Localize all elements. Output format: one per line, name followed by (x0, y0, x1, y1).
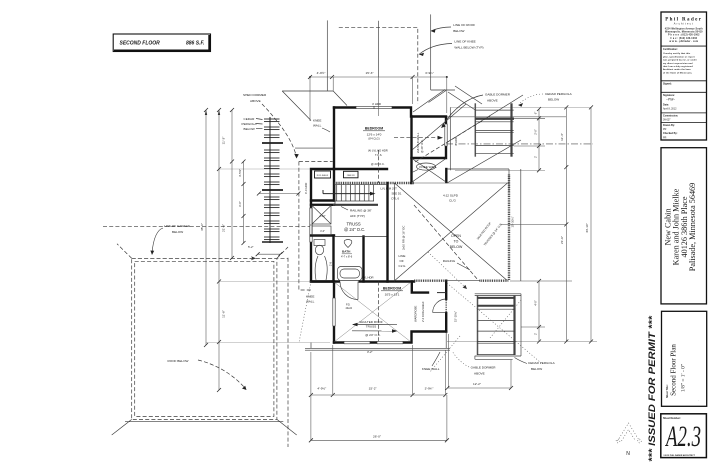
knee wall label bottom (422, 352, 440, 371)
svg-text:Architect: Architect (674, 21, 694, 25)
leader: gable dormer above top right (441, 93, 511, 129)
svg-text:PR: PR (663, 136, 667, 139)
svg-text:April 8, 2012: April 8, 2012 (663, 108, 677, 111)
garage roof outline dashed (112, 244, 297, 435)
svg-text:Architect under the laws: Architect under the laws (663, 68, 691, 71)
svg-text:P h o n e : (612) 430-1002: P h o n e : (612) 430-1002 (668, 34, 700, 37)
svg-text:TO: TO (454, 240, 459, 244)
closet rail hatch (445, 300, 447, 312)
svg-text:KNEE: KNEE (313, 119, 321, 123)
svg-text:5'-2": 5'-2" (248, 245, 254, 249)
svg-text:(4) LVL HD HDR: (4) LVL HD HDR (368, 149, 388, 153)
svg-text:4'-9½": 4'-9½" (317, 71, 326, 75)
svg-text:Second Floor Plan: Second Floor Plan (670, 344, 678, 396)
knee wall segment right (445, 169, 447, 182)
leader: shed dormer above (243, 93, 299, 159)
svg-text:OF: OF (400, 259, 404, 263)
svg-text:T.O.S.: T.O.S. (375, 153, 382, 157)
svg-text:RAILING @ 36": RAILING @ 36" (350, 209, 372, 213)
svg-text:w w w . philrader . com: w w w . philrader . com (669, 41, 698, 43)
rule (661, 45, 707, 47)
slope ceiling note (443, 194, 459, 203)
right dimension column A (534, 107, 542, 344)
header notes upper room (368, 149, 388, 167)
railing note at stair (341, 207, 372, 219)
svg-text:SHED DORMER: SHED DORMER (243, 93, 267, 97)
svg-text:15'-10¾": 15'-10¾" (454, 311, 458, 322)
window in top wall (356, 106, 392, 109)
svg-text:LVL HDR: LVL HDR (362, 275, 374, 279)
svg-text:was prepared by me, or under: was prepared by me, or under (663, 60, 697, 62)
dotted roof lines bottom right (299, 282, 540, 373)
knee wall label mid right (412, 163, 437, 173)
knee wall label lower left (306, 295, 315, 304)
svg-text:BEDROOM: BEDROOM (383, 287, 401, 291)
roof plane diagonals upper right (394, 90, 523, 184)
svg-text:OPEN: OPEN (451, 234, 461, 238)
railing hatch top (334, 182, 414, 184)
second floor label box (113, 34, 210, 52)
bath divider wall (332, 236, 334, 282)
svg-text:BELOW: BELOW (172, 230, 183, 234)
bottom dimension row (309, 345, 447, 440)
svg-text:11'-6": 11'-6" (222, 310, 226, 318)
svg-text:©2012 PHIL RADER ARCHITECT: ©2012 PHIL RADER ARCHITECT (663, 454, 696, 457)
svg-text:BELOW: BELOW (453, 29, 464, 33)
svg-text:Commission:: Commission: (663, 114, 678, 117)
bedroom ceiling diagonals (334, 282, 411, 342)
bedroom label upper (363, 127, 385, 141)
lvl rim jst note (381, 187, 402, 201)
shed dormer face above (282, 20, 378, 342)
top dimension line (308, 71, 448, 121)
svg-text:@ 24" O.C.: @ 24" O.C. (420, 139, 424, 153)
roof below line upper right (431, 14, 482, 110)
closet label box (315, 171, 331, 178)
svg-text:15'-2": 15'-2" (369, 386, 377, 390)
svg-text:4' HDR: 4' HDR (372, 102, 381, 106)
open to below text (450, 234, 463, 249)
svg-text:Checked By:: Checked By: (663, 132, 678, 135)
svg-text:*** ISSUED FOR PERMIT ***: *** ISSUED FOR PERMIT *** (647, 314, 658, 462)
svg-text:4:12 SLPD: 4:12 SLPD (443, 194, 459, 198)
small left dims for pergola (238, 160, 300, 257)
svg-text:26'-0": 26'-0" (373, 435, 381, 439)
bath fixtures: toilet (344, 240, 352, 248)
svg-text:3'-9¼": 3'-9¼" (425, 386, 434, 390)
svg-text:BEDROOM: BEDROOM (365, 127, 383, 131)
left cedar pergola ladder (262, 117, 283, 243)
svg-text:3'-2": 3'-2" (367, 350, 373, 354)
railing label (443, 259, 470, 270)
sheet title box (662, 311, 707, 406)
open to below boundary (414, 169, 509, 192)
svg-text:2'-8: 2'-8 (330, 261, 333, 266)
svg-text:Certification:: Certification: (663, 48, 678, 51)
bedroom north wall (311, 280, 414, 282)
svg-text:N: N (626, 451, 630, 457)
line of ceiling note (399, 254, 407, 268)
svg-text:6'-0": 6'-0" (238, 201, 242, 207)
svg-text:@ 24" O.C.: @ 24" O.C. (344, 227, 365, 232)
svg-text:CL'G: CL'G (399, 264, 407, 268)
architect address lines (665, 27, 703, 43)
railing hatch right of open area (508, 175, 510, 281)
right dimension column B (560, 105, 568, 343)
svg-text:CEDAR PERGOLA: CEDAR PERGOLA (545, 92, 573, 96)
svg-text:(8'4 CLG): (8'4 CLG) (368, 137, 379, 141)
door opening in bedroom wall (340, 280, 359, 283)
svg-text:CL'G: CL'G (449, 199, 457, 203)
closet bottom wall (311, 199, 334, 201)
project info box (661, 148, 707, 304)
svg-text:6": 6" (534, 112, 538, 115)
svg-text:4' HDR: 4' HDR (454, 137, 458, 146)
dashed knee wall line left (299, 162, 333, 291)
exterior wall left upper (311, 108, 334, 343)
svg-text:LINE OF KNEE: LINE OF KNEE (454, 40, 475, 44)
hall-stair wall upper (334, 168, 387, 170)
closet east wall (445, 313, 447, 332)
bath inner wall (311, 234, 334, 236)
svg-text:RAILING: RAILING (443, 259, 456, 263)
leader: cedar pergola below bottom (515, 358, 556, 372)
svg-text:4'-9½": 4'-9½" (317, 386, 326, 390)
svg-text:886 S.F.: 886 S.F. (186, 40, 204, 46)
architect title block box (661, 12, 707, 140)
svg-text:10'5 x 13'1: 10'5 x 13'1 (385, 292, 400, 296)
svg-text:Palisade, Minnesota 56469: Palisade, Minnesota 56469 (688, 183, 697, 271)
dashed long roofline left (103, 225, 310, 227)
svg-text:I hereby certify that this: I hereby certify that this (663, 52, 691, 55)
svg-text:4'-0": 4'-0" (320, 230, 325, 233)
leader: line of knee wall below (419, 40, 484, 57)
svg-text:Date:: Date: (663, 104, 669, 107)
svg-text:21'-6": 21'-6" (222, 224, 226, 232)
leader: line of garage below (150, 224, 190, 255)
svg-text:40x24: 40x24 (346, 307, 353, 310)
svg-text:21'-6": 21'-6" (560, 236, 564, 244)
leader: roof below (168, 359, 247, 390)
svg-text:45'-0": 45'-0" (200, 223, 204, 231)
svg-text:TRUSS: TRUSS (347, 222, 361, 227)
svg-text:12'6 x 14'0: 12'6 x 14'0 (367, 132, 382, 136)
svg-text:2'-6": 2'-6" (534, 129, 538, 135)
central wall right of stair (386, 183, 388, 282)
svg-text:WALL: WALL (313, 124, 322, 128)
svg-text:VAULTED ROOF: VAULTED ROOF (359, 320, 383, 324)
svg-text:15'-10¾": 15'-10¾" (511, 216, 515, 227)
svg-text:LINE: LINE (399, 254, 406, 258)
window in lower left wall (332, 298, 336, 326)
svg-text:plan, specification or report: plan, specification or report (663, 55, 695, 58)
svg-text:KNEE: KNEE (306, 295, 314, 299)
svg-text:CEDAR PERGOLA: CEDAR PERGOLA (528, 361, 556, 365)
svg-text:34'-10": 34'-10" (585, 223, 589, 233)
bath door arc (340, 282, 358, 311)
svg-text:LINE OF GARAGE: LINE OF GARAGE (164, 224, 190, 228)
stair railing (333, 204, 378, 206)
closet top wall (412, 282, 428, 293)
svg-text:GABLE DORMER: GABLE DORMER (471, 366, 497, 370)
right dimension column C overall (585, 105, 593, 343)
closet interior jamb (437, 292, 446, 294)
svg-text:@ 24" O.C.: @ 24" O.C. (365, 333, 381, 337)
left dimension lines (200, 108, 330, 392)
svg-text:ABOVE: ABOVE (474, 372, 485, 376)
svg-text:LINE OF ROOF: LINE OF ROOF (453, 23, 475, 27)
bottom right dimension 12'-2" (445, 334, 513, 390)
truss note center (344, 222, 365, 232)
bottom overall dimension 26'-0" (309, 435, 449, 443)
svg-text:6'-0 HDR: 6'-0 HDR (304, 183, 308, 194)
garage top edge dashed with arrow (132, 256, 288, 260)
svg-text:CEDAR: CEDAR (244, 117, 256, 121)
bath label (341, 250, 353, 259)
svg-text:WALL BELOW (TYP): WALL BELOW (TYP) (454, 46, 483, 50)
svg-text:SECOND FLOOR: SECOND FLOOR (120, 40, 161, 46)
leader: line of roof below (431, 23, 476, 33)
window in left wall (309, 208, 313, 242)
svg-text:that I am a duly registered: that I am a duly registered (663, 65, 693, 68)
svg-text:4'-7 x 8'-6: 4'-7 x 8'-6 (341, 255, 353, 259)
stairs (323, 185, 388, 205)
svg-text:AFF (TYP): AFF (TYP) (350, 214, 365, 218)
svg-text:BELOW: BELOW (450, 245, 463, 249)
dashed roofline right of garage (287, 258, 289, 447)
diagonal vaulted truss note (476, 221, 504, 247)
svg-text:2x10 RR @ 16" OC: 2x10 RR @ 16" OC (402, 226, 406, 250)
svg-text:PERGOLA: PERGOLA (242, 122, 258, 126)
windows in bottom wall (344, 341, 370, 345)
svg-text:11'-4": 11'-4" (560, 133, 564, 141)
bedroom label lower (381, 287, 403, 297)
north arrow (616, 423, 642, 457)
svg-text:my direct supervision and: my direct supervision and (663, 62, 693, 65)
closet right wall (333, 169, 335, 201)
svg-text:Drawn By:: Drawn By: (663, 124, 675, 127)
svg-text:ABOVE: ABOVE (487, 99, 498, 103)
svg-text:4'-5⅜": 4'-5⅜" (238, 169, 242, 177)
svg-text:2'-0 ROD+SHELF: 2'-0 ROD+SHELF (421, 301, 425, 322)
svg-text:@ 24" O.C.: @ 24" O.C. (371, 162, 385, 166)
svg-text:BELOW: BELOW (244, 127, 255, 131)
rule (661, 91, 707, 93)
lower right cedar pergola (475, 294, 521, 360)
svg-text:DTL 6: DTL 6 (392, 196, 400, 200)
svg-text:BELOW: BELOW (548, 98, 559, 102)
bath north wall (311, 204, 334, 206)
svg-text:WALL: WALL (306, 300, 315, 304)
svg-text:GABLE DORMER: GABLE DORMER (485, 93, 511, 97)
svg-text:Signed:: Signed: (663, 83, 672, 86)
svg-text:4'-0": 4'-0" (534, 300, 538, 306)
bath vanity and sink (314, 240, 333, 281)
svg-text:ROD·SHELF: ROD·SHELF (317, 175, 329, 177)
svg-text:SEE D1: SEE D1 (392, 192, 402, 196)
leader: cedar pergola below top right (518, 92, 573, 107)
svg-text:BELOW: BELOW (531, 367, 542, 371)
svg-text:A2.3: A2.3 (665, 420, 701, 453)
svg-text:~Phil~: ~Phil~ (666, 98, 675, 102)
svg-text:LVL RIM JST: LVL RIM JST (381, 187, 398, 191)
svg-text:3'-9¼": 3'-9¼" (425, 71, 434, 75)
svg-text:12'-2": 12'-2" (473, 382, 481, 386)
svg-text:PR: PR (663, 128, 667, 131)
bath linen shelves (312, 206, 331, 236)
svg-text:1/8″ = 1′ - 0″: 1/8″ = 1′ - 0″ (681, 364, 687, 392)
svg-text:11'-3": 11'-3" (222, 137, 226, 145)
railing hatch bottom of open area (414, 280, 446, 282)
leader: gable dormer above bottom (452, 351, 496, 376)
svg-text:of the State of Minnesota.: of the State of Minnesota. (663, 71, 693, 74)
door tag box (344, 171, 359, 178)
window in upper right wall (444, 124, 448, 146)
svg-text:KNEE WALL: KNEE WALL (422, 367, 440, 371)
svg-text:Minneapolis, Minnesota 55410: Minneapolis, Minnesota 55410 (665, 31, 703, 34)
closet door arc (433, 299, 447, 313)
dashed dormer outline top (339, 27, 418, 103)
svg-text:ABOVE: ABOVE (250, 99, 261, 103)
svg-text:BATH: BATH (342, 250, 351, 254)
svg-text:WARDROBE: WARDROBE (414, 305, 418, 322)
svg-text:15'-3": 15'-3" (366, 71, 374, 75)
svg-text:2'-10": 2'-10" (319, 215, 325, 218)
rule (661, 80, 707, 82)
knee wall label upper left (313, 119, 330, 133)
svg-text:09-027: 09-027 (663, 118, 671, 121)
svg-text:F a x : (612) 430-1003: F a x : (612) 430-1003 (670, 37, 697, 40)
bath east wall (362, 237, 364, 282)
misc thin line left of bath (295, 147, 334, 149)
svg-text:2868 DR: 2868 DR (347, 175, 355, 177)
svg-text:TRUSS: TRUSS (366, 325, 377, 329)
right extension lines (446, 107, 597, 341)
exterior wall top (334, 108, 446, 159)
open area diagonals (395, 183, 508, 289)
upper right cedar pergola (475, 103, 514, 156)
balcony eave below bottom wall (305, 332, 450, 351)
sheet number box A2.3 (661, 414, 707, 458)
vaulted roof truss note in bedroom (352, 320, 398, 337)
leader: cedar pergola below left (242, 117, 263, 131)
bottom exterior wall (334, 332, 446, 343)
svg-text:4224 Wellington Avenue South: 4224 Wellington Avenue South (665, 27, 703, 30)
svg-text:2x6 STUD WALL: 2x6 STUD WALL (416, 132, 420, 153)
bathtub (338, 267, 363, 281)
svg-text:ROOF BELOW: ROOF BELOW (168, 359, 189, 363)
